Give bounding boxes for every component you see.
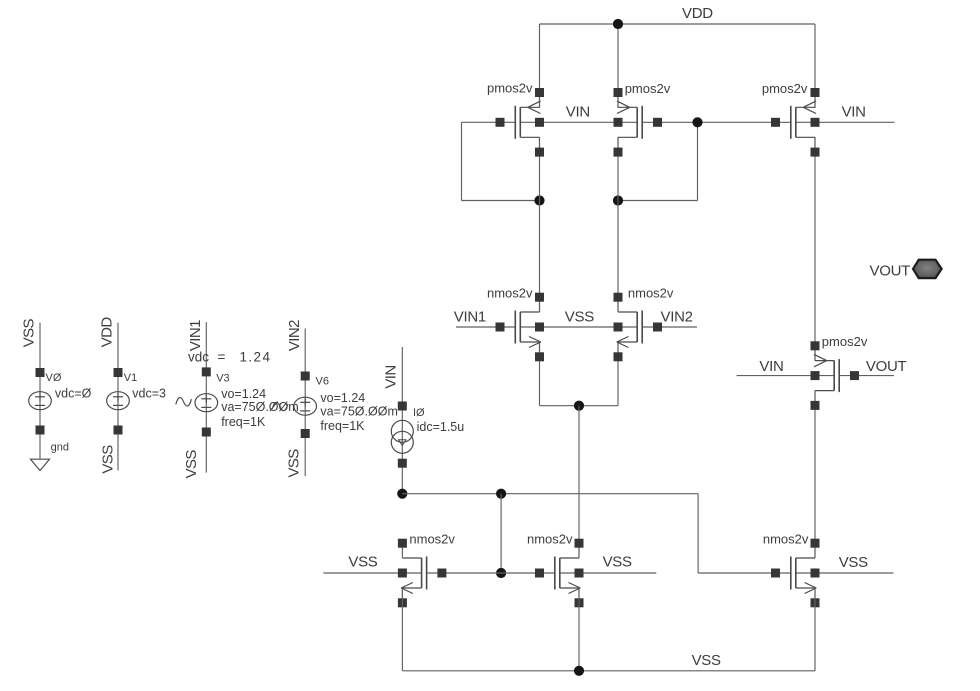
svg-text:vo=1.24: vo=1.24 <box>320 391 365 405</box>
svg-text:VIN: VIN <box>382 365 399 388</box>
svg-text:vdc=3: vdc=3 <box>132 387 166 401</box>
svg-text:nmos2v: nmos2v <box>487 285 533 300</box>
svg-text:VSS: VSS <box>348 553 377 570</box>
svg-text:VSS: VSS <box>99 445 116 474</box>
svg-text:VSS: VSS <box>603 553 632 570</box>
svg-text:VSS: VSS <box>839 554 868 571</box>
svg-text:V3: V3 <box>216 373 229 385</box>
svg-text:VSS: VSS <box>20 318 37 347</box>
svg-text:idc=1.5u: idc=1.5u <box>417 420 465 434</box>
svg-text:VØ: VØ <box>46 372 62 384</box>
svg-text:VIN2: VIN2 <box>661 308 693 325</box>
svg-text:VOUT: VOUT <box>870 263 911 280</box>
svg-text:VSS: VSS <box>565 308 594 325</box>
svg-text:VIN1: VIN1 <box>454 308 486 325</box>
svg-text:VSS: VSS <box>285 449 302 478</box>
svg-text:pmos2v: pmos2v <box>822 334 868 349</box>
svg-text:nmos2v: nmos2v <box>763 532 809 547</box>
svg-text:V6: V6 <box>316 376 329 388</box>
svg-text:VSS: VSS <box>692 652 721 669</box>
svg-text:pmos2v: pmos2v <box>487 81 533 96</box>
svg-text:nmos2v: nmos2v <box>527 532 573 547</box>
svg-text:VSS: VSS <box>183 450 200 479</box>
svg-text:freq=1K: freq=1K <box>221 415 266 429</box>
svg-text:vdc=Ø: vdc=Ø <box>55 387 92 401</box>
svg-text:vo=1.24: vo=1.24 <box>221 387 266 401</box>
svg-text:nmos2v: nmos2v <box>409 532 455 547</box>
svg-text:=: = <box>218 350 226 365</box>
svg-text:freq=1K: freq=1K <box>320 419 365 433</box>
svg-text:VDD: VDD <box>99 317 116 348</box>
svg-text:vdc: vdc <box>188 350 209 365</box>
svg-text:VIN: VIN <box>566 104 590 121</box>
svg-text:1.24: 1.24 <box>240 350 272 365</box>
svg-text:IØ: IØ <box>413 407 425 419</box>
svg-text:VIN1: VIN1 <box>187 320 204 351</box>
svg-text:va=75Ø.ØØm: va=75Ø.ØØm <box>320 405 397 419</box>
svg-text:pmos2v: pmos2v <box>762 81 808 96</box>
svg-text:VIN: VIN <box>759 358 783 375</box>
svg-text:gnd: gnd <box>51 441 69 453</box>
svg-text:V1: V1 <box>124 372 137 384</box>
svg-text:pmos2v: pmos2v <box>625 81 671 96</box>
svg-text:nmos2v: nmos2v <box>628 285 674 300</box>
svg-text:VDD: VDD <box>682 5 713 22</box>
svg-text:VOUT: VOUT <box>866 358 907 375</box>
svg-text:VIN2: VIN2 <box>286 320 303 351</box>
svg-text:VIN: VIN <box>842 104 866 121</box>
